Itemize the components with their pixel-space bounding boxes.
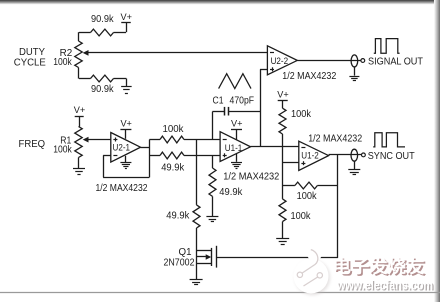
- resistor 90.9k (lower): [79, 78, 91, 80]
- svg-text:49.9k: 49.9k: [166, 211, 189, 222]
- R1 wiper arrow: [83, 137, 89, 143]
- svg-text:100k: 100k: [163, 124, 184, 135]
- resistor 100k (pull-up from V+): [279, 108, 286, 134]
- svg-text:90.9k: 90.9k: [91, 84, 114, 95]
- ground (SYNC OUT connector): [354, 161, 356, 169]
- svg-text:100k: 100k: [291, 109, 311, 120]
- svg-text:U2-1: U2-1: [113, 142, 131, 153]
- wire U1-2 output to SYNC OUT: [329, 154, 362, 156]
- op-amp U1-2: [299, 141, 329, 170]
- ground (49.9k): [212, 196, 214, 216]
- ground (lower 100k): [282, 222, 284, 239]
- potentiometer R2 100k: [75, 41, 82, 68]
- resistor 100k (to ground): [279, 199, 286, 222]
- wire pull-up node column: [282, 134, 284, 199]
- connector SIGNAL OUT: [351, 55, 358, 67]
- square wave icon (SYNC OUT): [373, 133, 405, 147]
- svg-text:V+: V+: [231, 118, 243, 129]
- svg-text:www.elecfans.com: www.elecfans.com: [336, 278, 433, 292]
- svg-text:1/2 MAX4232: 1/2 MAX4232: [223, 171, 279, 182]
- node junction column (U2-1 out): [149, 140, 151, 178]
- op-amp U2-1: [111, 133, 141, 163]
- svg-text:1/2 MAX4232: 1/2 MAX4232: [282, 71, 336, 82]
- wire U1-1 output to U1-2 inverting input: [251, 146, 299, 148]
- border right: [434, 0, 440, 302]
- resistor 49.9k (to Q1): [196, 140, 198, 205]
- svg-text:2N7002: 2N7002: [164, 257, 195, 268]
- resistor 100k (to U1-1 inverting): [149, 139, 160, 141]
- wire R1 wiper to U2-1 + input: [88, 139, 111, 141]
- svg-text:100k: 100k: [291, 211, 311, 222]
- wire R2 bottom to lower 90.9k: [78, 68, 80, 79]
- border bottom: [0, 292, 440, 294]
- wire U1-2 output node down: [337, 155, 339, 258]
- svg-text:电子发烧友: 电子发烧友: [333, 256, 426, 276]
- connector SYNC OUT: [351, 149, 358, 161]
- wire U2-2 output to SIGNAL OUT: [297, 60, 361, 62]
- svg-text:V+: V+: [74, 105, 86, 116]
- svg-text:SIGNAL OUT: SIGNAL OUT: [368, 57, 423, 68]
- wire R2 wiper to U2-2 inverting input: [88, 52, 267, 54]
- svg-text:100k: 100k: [53, 145, 72, 156]
- svg-text:100k: 100k: [297, 191, 317, 202]
- square wave icon (SIGNAL OUT): [374, 39, 400, 54]
- svg-text:CYCLE: CYCLE: [14, 57, 46, 68]
- svg-text:1/2 MAX4232: 1/2 MAX4232: [96, 183, 148, 194]
- wire C1 left to U1-1 inverting node: [212, 112, 214, 140]
- svg-text:V+: V+: [121, 12, 133, 23]
- ground (SIGNAL OUT connector): [354, 67, 356, 76]
- border top: [0, 0, 440, 5]
- wire Q1 gate to U1-2 output node: [216, 257, 338, 259]
- resistor 100k (U1-2 feedback): [283, 185, 295, 187]
- svg-text:U1-1: U1-1: [225, 143, 243, 154]
- ground (U2-1): [125, 156, 127, 162]
- potentiometer R1 100k: [75, 127, 82, 158]
- wire upper 90.9k to R2 top: [78, 32, 80, 41]
- ground (Q1 source): [190, 279, 203, 281]
- triangle wave icon: [219, 74, 251, 89]
- wire V+ to 90.9k: [126, 23, 128, 32]
- svg-text:1/2 MAX4232: 1/2 MAX4232: [308, 134, 362, 145]
- resistor 90.9k (upper): [79, 32, 91, 34]
- svg-text:V+: V+: [277, 89, 289, 100]
- resistor 49.9k (to U1-1 non-inverting): [149, 155, 160, 157]
- wire C1 right / U1-1 out to U2-2 + input: [260, 69, 262, 147]
- wire to U1-2 + input: [283, 162, 299, 164]
- resistor 49.9k (grounded): [212, 155, 214, 168]
- svg-text:49.9k: 49.9k: [219, 187, 242, 198]
- ground (R1): [78, 158, 80, 169]
- svg-text:U2-2: U2-2: [271, 56, 289, 67]
- svg-text:U1-2: U1-2: [301, 151, 319, 162]
- svg-text:C1: C1: [213, 95, 224, 106]
- ground (U1-1): [236, 154, 238, 162]
- svg-text:SYNC OUT: SYNC OUT: [368, 151, 415, 162]
- watermark logo (elecfans): [294, 246, 331, 295]
- wire U2-1 feedback loop: [103, 177, 149, 179]
- svg-text:90.9k: 90.9k: [91, 14, 114, 25]
- ground (lower 90.9k): [126, 79, 128, 87]
- svg-text:V+: V+: [120, 119, 132, 130]
- op-amp U1-1: [220, 132, 250, 162]
- svg-text:100k: 100k: [53, 57, 72, 68]
- wire U2-1 output: [141, 147, 150, 149]
- svg-text:49.9k: 49.9k: [161, 163, 184, 174]
- svg-text:470pF: 470pF: [230, 95, 255, 106]
- R2 wiper arrow: [83, 50, 89, 56]
- op-amp U2-2: [267, 46, 297, 75]
- wire Q1 branch column: [196, 228, 198, 279]
- svg-text:FREQ: FREQ: [19, 139, 46, 150]
